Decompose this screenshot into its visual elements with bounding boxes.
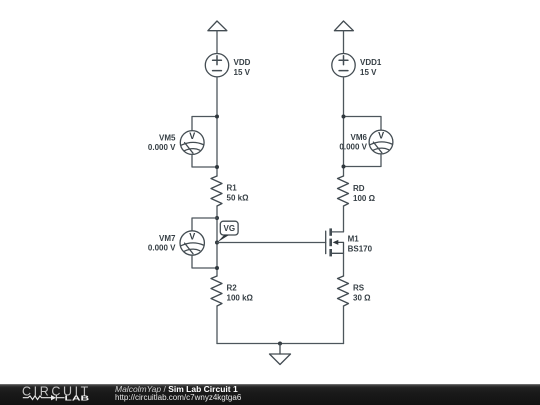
label VM6 0.000 V xyxy=(339,133,367,152)
footer text line 1 xyxy=(115,384,238,394)
voltage source VDD1 15 V xyxy=(332,53,355,76)
label RS 30 ohm xyxy=(353,283,371,302)
svg-text:15 V: 15 V xyxy=(234,68,251,77)
footer bar xyxy=(0,384,540,405)
node VG junction dot xyxy=(215,241,219,245)
voltage source VDD 15 V xyxy=(205,53,228,76)
wire gate (node VG to M1) xyxy=(217,242,326,244)
footer text line 2 xyxy=(115,393,241,402)
node junction rail-VM5 bottom xyxy=(215,165,219,169)
wire VDD1 source to node xyxy=(343,77,345,176)
svg-text:LAB: LAB xyxy=(65,395,90,403)
svg-text:V: V xyxy=(378,131,384,141)
svg-text:100 kΩ: 100 kΩ xyxy=(227,293,254,302)
wire RD to drain xyxy=(331,206,344,232)
voltmeter VM5 xyxy=(180,131,204,155)
svg-text:RD: RD xyxy=(353,184,365,193)
wire VM5 top branch xyxy=(192,117,217,131)
wire R1 to node VG xyxy=(216,206,218,276)
node flag VG xyxy=(217,221,238,242)
node junction R1-VM7 top xyxy=(215,216,219,220)
svg-text:0.000 V: 0.000 V xyxy=(148,243,176,252)
node junction ground tap xyxy=(278,342,282,346)
power flag VDD1 (right supply arrow) xyxy=(334,21,353,54)
wire VM7 top branch xyxy=(192,218,217,231)
svg-text:0.000 V: 0.000 V xyxy=(339,142,367,151)
wire bottom rail xyxy=(217,343,344,345)
svg-text:V: V xyxy=(189,131,195,141)
node junction rail-VM5 top xyxy=(215,115,219,119)
label VDD 15 V xyxy=(234,58,251,77)
svg-text:30 Ω: 30 Ω xyxy=(353,293,371,302)
resistor R2 100 k xyxy=(211,276,222,306)
wire VM5 bottom branch xyxy=(192,154,217,167)
CircuitLab logo xyxy=(0,384,100,405)
svg-text:R1: R1 xyxy=(227,183,238,192)
svg-text:15 V: 15 V xyxy=(360,68,377,77)
svg-text:VM5: VM5 xyxy=(159,133,176,142)
label R1 50 k xyxy=(227,183,250,202)
label VM7 0.000 V xyxy=(148,234,176,253)
svg-text:VM7: VM7 xyxy=(159,234,176,243)
svg-text:V: V xyxy=(189,232,195,242)
svg-text:100 Ω: 100 Ω xyxy=(353,194,376,203)
voltmeter VM6 xyxy=(369,130,393,154)
svg-text:0.000 V: 0.000 V xyxy=(148,143,176,152)
wire VM6 bottom branch xyxy=(344,154,382,167)
voltmeter VM7 xyxy=(180,231,204,255)
label R2 100 k xyxy=(227,283,254,302)
node junction rail-VM6 top xyxy=(342,115,346,119)
resistor RS 30 ohm xyxy=(338,276,349,306)
power flag VDD (left supply arrow) xyxy=(208,21,227,54)
node junction VM7 bottom xyxy=(215,266,219,270)
wire R2 to ground rail xyxy=(216,306,218,344)
wire VM6 top branch xyxy=(344,117,382,131)
wire source to RS xyxy=(343,253,345,276)
svg-text:50 kΩ: 50 kΩ xyxy=(227,193,250,202)
wire VDD source to node xyxy=(216,77,218,176)
node junction rail-VM6 bottom xyxy=(342,165,346,169)
svg-text:VM6: VM6 xyxy=(351,133,368,142)
label VM5 0.000 V xyxy=(148,133,176,152)
wire VM7 bottom branch xyxy=(192,255,217,268)
svg-text:R2: R2 xyxy=(227,283,238,292)
resistor R1 50 k xyxy=(211,176,222,206)
svg-text:M1: M1 xyxy=(348,234,360,243)
label RD 100 ohm xyxy=(353,184,376,203)
ground xyxy=(270,344,291,365)
svg-text:RS: RS xyxy=(353,283,365,292)
transistor M1 BS170 xyxy=(326,228,344,256)
svg-text:VDD1: VDD1 xyxy=(360,58,382,67)
label M1 BS170 xyxy=(348,234,373,253)
svg-text:BS170: BS170 xyxy=(348,244,373,253)
svg-text:VDD: VDD xyxy=(234,58,251,67)
resistor RD 100 ohm xyxy=(338,176,349,206)
wire RS to ground rail xyxy=(343,306,345,344)
label VDD1 15 V xyxy=(360,58,382,77)
svg-text:VG: VG xyxy=(224,224,236,233)
